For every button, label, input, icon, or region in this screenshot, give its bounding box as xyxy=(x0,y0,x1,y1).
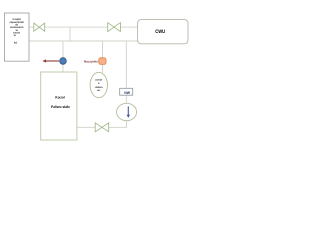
wire NW box to pump xyxy=(125,95,127,103)
svg-text:w: w xyxy=(14,34,16,37)
wire valve Z3 to boiler xyxy=(77,126,95,128)
wire vertical to NW box xyxy=(125,41,127,88)
motor valve ellipse xyxy=(90,72,107,97)
valve Z3 xyxy=(95,123,109,132)
svg-text:ster.: ster. xyxy=(97,89,101,92)
svg-text:Paliwo stałe: Paliwo stałe xyxy=(51,105,70,109)
mixing node (blue circle) xyxy=(60,58,67,65)
wire vertical tie x=70 xyxy=(69,27,71,41)
wire top supply line left segment xyxy=(45,26,108,28)
svg-text:ki: ki xyxy=(14,42,18,45)
CWU tank box xyxy=(138,20,188,44)
wire from expansion box to valve Z1 xyxy=(29,26,34,28)
wire pump down to corner xyxy=(109,121,127,128)
wire vertical to expansion vessel node xyxy=(102,41,104,58)
svg-text:NW: NW xyxy=(124,91,130,95)
expansion box (top left) xyxy=(5,13,30,61)
wire vertical to boiler through mixing node xyxy=(62,41,64,72)
pump circle xyxy=(117,103,137,120)
expansion vessel node (orange) xyxy=(99,58,106,65)
valve Z2 xyxy=(108,23,121,32)
return flow arrow (red, pointing left) xyxy=(44,60,59,62)
wire return line y=41 xyxy=(29,40,138,42)
valve Z1 xyxy=(34,23,45,31)
svg-text:Kocioł: Kocioł xyxy=(55,95,64,99)
svg-text:Naczynko: Naczynko xyxy=(84,59,98,63)
wire top supply line right segment xyxy=(121,26,138,28)
pump arrow (blue, down) xyxy=(127,106,129,115)
wire vertical from vessel node to motor valve ellipse xyxy=(102,64,104,72)
boiler box xyxy=(41,72,77,140)
NW box xyxy=(120,88,133,95)
svg-text:CWU: CWU xyxy=(155,29,165,35)
